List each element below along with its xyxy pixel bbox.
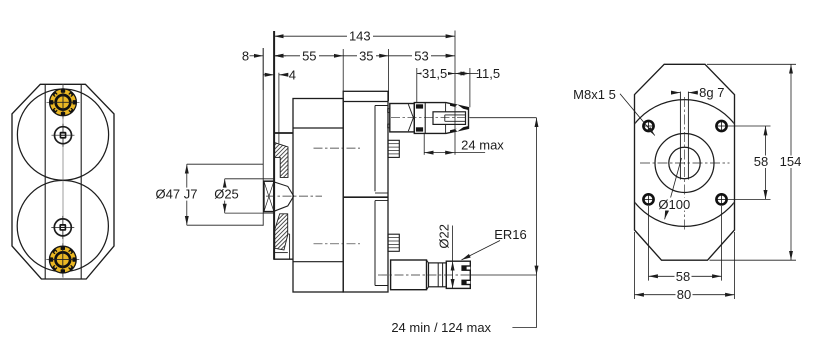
ext right58 top [728, 125, 771, 127]
svg-text:Ø25: Ø25 [214, 187, 239, 202]
collet bore line upper [445, 114, 466, 116]
dim 4 arrows outside [263, 74, 274, 76]
bearing box with X [264, 181, 274, 211]
collet nut top outline [414, 103, 468, 134]
text 58 bottom [675, 269, 692, 284]
svg-text:53: 53 [414, 48, 428, 63]
dim 143 line [274, 35, 455, 37]
gear axis centerline bottom [314, 243, 361, 245]
adjuster screw block bottom [388, 234, 399, 251]
flange hatch bottom (boot) [275, 214, 288, 250]
left view spindle circle bottom [17, 180, 108, 271]
svg-text:154: 154 [780, 154, 802, 169]
left view spindle circle top [17, 89, 108, 180]
text dia47 J7 [151, 187, 201, 202]
dia47 dim line [186, 164, 188, 225]
dim 31,5 line [417, 73, 455, 75]
gear tower [343, 91, 388, 292]
dim bottom 58 [649, 275, 722, 277]
main body left block [293, 99, 343, 293]
M8 hole top-left [643, 121, 654, 132]
nut cone start verticals [445, 103, 447, 112]
left view octagonal plate outline [12, 84, 114, 279]
cylinder shoulder chamfer bottom [427, 287, 429, 290]
ext bottom58 left [648, 206, 650, 281]
ext right58 bottom [728, 198, 771, 200]
mid section ring line 1 [437, 263, 439, 287]
inner column top line [375, 105, 388, 107]
nut thread block lower [416, 127, 423, 131]
dia22 dim line vertical [452, 226, 454, 262]
svg-text:Ø22: Ø22 [436, 224, 451, 249]
ext 154 bottom [710, 259, 797, 261]
text 35 [357, 48, 376, 63]
text 53 [412, 48, 431, 63]
collet bore step [444, 115, 446, 121]
dia100 circle clipped by plate [621, 100, 748, 227]
extension line x469.9 [469, 68, 471, 107]
M8 hole top-right [716, 121, 727, 132]
left view slide edge line right [80, 84, 82, 279]
flange top shelf [274, 132, 293, 134]
svg-text:24 max: 24 max [461, 137, 504, 152]
gearbox parting line lower [375, 200, 388, 202]
dia47 spigot circle [655, 134, 714, 193]
tower inner top line [343, 101, 388, 103]
input axis centerline [266, 195, 322, 197]
inner column left edge lower [374, 201, 376, 286]
dim 55 line [274, 55, 343, 57]
gearbox parting line middle thick [343, 196, 388, 198]
dia47 extension bottom [187, 224, 263, 226]
left view vertical centerline [62, 84, 64, 279]
text 55 [300, 48, 319, 63]
adjuster screw block top [388, 140, 399, 157]
text 154 [779, 154, 803, 169]
range dim vertical line [536, 118, 538, 275]
text 58 right [753, 154, 770, 169]
input shaft hexagon end [274, 182, 294, 211]
nut ring split line [424, 103, 426, 134]
bottom spindle cylinder [391, 260, 427, 290]
cone clamp wedge lower [450, 126, 468, 133]
text dia100 [656, 197, 693, 212]
extension line x343 [342, 49, 344, 91]
dimension texts middle view [151, 29, 527, 335]
inner column bottom line [375, 285, 388, 287]
top spindle centerline extension to range dim [470, 117, 537, 119]
left view slide edge line left [44, 84, 46, 279]
flange bottom recess corner [274, 252, 288, 254]
nose notch lower [388, 124, 390, 128]
dim 11,5 arrows [455, 73, 470, 75]
right view vertical centerline [684, 97, 686, 232]
gear axis centerline top [314, 147, 361, 149]
M8 leader [620, 94, 655, 136]
svg-text:8: 8 [242, 48, 249, 63]
svg-text:31,5: 31,5 [422, 66, 447, 81]
svg-text:35: 35 [359, 48, 373, 63]
dia25 extension bottom [225, 212, 274, 214]
svg-text:ER16: ER16 [494, 227, 527, 242]
collet nut front bottom (gold) [46, 243, 79, 277]
extension line x389 [388, 49, 390, 101]
nose cone lines [408, 104, 413, 118]
flange bottom step vertical [288, 234, 290, 259]
dim right 58 [765, 126, 767, 199]
right view octagonal plate outline [635, 64, 735, 260]
spindle nose block top [390, 104, 415, 132]
right view texts [573, 85, 803, 302]
inner column left edge upper [374, 106, 376, 192]
dia25 extension top [225, 178, 274, 180]
bottom nut slot upper [461, 265, 470, 271]
svg-text:4: 4 [289, 67, 296, 82]
M8 hole bottom-right [716, 194, 727, 205]
bottom spindle centerline [378, 274, 470, 276]
M8 hole bottom-left [643, 194, 654, 205]
machine interface line [262, 48, 264, 226]
collet bore line lower [445, 120, 466, 122]
M8 tapped holes [643, 121, 727, 205]
collet inner sleeve [433, 112, 466, 125]
8g7 arrows [671, 92, 680, 94]
dim 8 arrows outside [250, 55, 264, 57]
svg-text:58: 58 [676, 269, 690, 284]
ext 80 right [734, 232, 736, 299]
dia25 bore circle [669, 147, 700, 178]
svg-text:Ø100: Ø100 [658, 197, 690, 212]
dim 154 [790, 64, 792, 260]
svg-text:55: 55 [302, 48, 316, 63]
extension line x263 [262, 48, 264, 90]
text 80 [676, 287, 693, 302]
ext bottom58 right [721, 206, 723, 281]
collet nut front top (gold) [47, 85, 80, 119]
dia47 extension top [187, 163, 263, 165]
right view horizontal centerline [640, 162, 730, 164]
svg-text:58: 58 [754, 154, 768, 169]
text 143 [347, 29, 373, 44]
left block internal line top [293, 127, 343, 129]
nose notch upper [388, 109, 390, 113]
svg-text:8g 7: 8g 7 [699, 85, 724, 100]
cone clamp wedge upper [450, 103, 468, 110]
set screw front top [52, 124, 75, 147]
left block internal line bottom [293, 261, 343, 263]
dim 80 [635, 294, 735, 296]
drive slot line left [679, 92, 681, 180]
svg-text:Ø47 J7: Ø47 J7 [156, 187, 198, 202]
range dim hook to text [512, 327, 536, 329]
spigot face line [278, 73, 280, 144]
text dia25 [213, 187, 241, 202]
mounting face thick line [273, 31, 275, 260]
extension line x455 [454, 31, 456, 155]
dim 24max line [424, 152, 454, 154]
ext 80 left [634, 232, 636, 299]
svg-text:80: 80 [677, 287, 691, 302]
dim 53 line [389, 55, 455, 57]
dia25 dim line [224, 179, 226, 213]
svg-text:M8x1 5: M8x1 5 [573, 87, 616, 102]
set screw front bottom [51, 216, 74, 239]
top spindle centerline [391, 117, 470, 119]
bottom spindle centerline extension to range dim [470, 274, 536, 276]
cylinder shoulder chamfer top [427, 260, 429, 263]
extension line x416.8 [416, 68, 418, 102]
dim 35 line [343, 55, 388, 57]
bottom nut slot lower [461, 280, 470, 286]
svg-text:11,5: 11,5 [476, 66, 500, 81]
svg-text:24 min / 124 max: 24 min / 124 max [391, 320, 491, 335]
dia100 leader [665, 158, 682, 219]
text 31,5 [422, 66, 449, 81]
bottom collet nut body [446, 261, 470, 288]
spindle mid section [429, 263, 447, 287]
gearbox parting line upper [375, 192, 388, 194]
drive slot line right [687, 92, 689, 180]
ER16 leader [462, 241, 501, 260]
flange bottom shelf [274, 258, 293, 260]
mid section ring line 2 [442, 263, 444, 287]
extension line 24max left [423, 134, 425, 155]
ext 154 top [707, 63, 796, 65]
nut thread block upper [416, 104, 423, 108]
flange hatch top [275, 143, 288, 178]
svg-text:143: 143 [349, 29, 371, 44]
